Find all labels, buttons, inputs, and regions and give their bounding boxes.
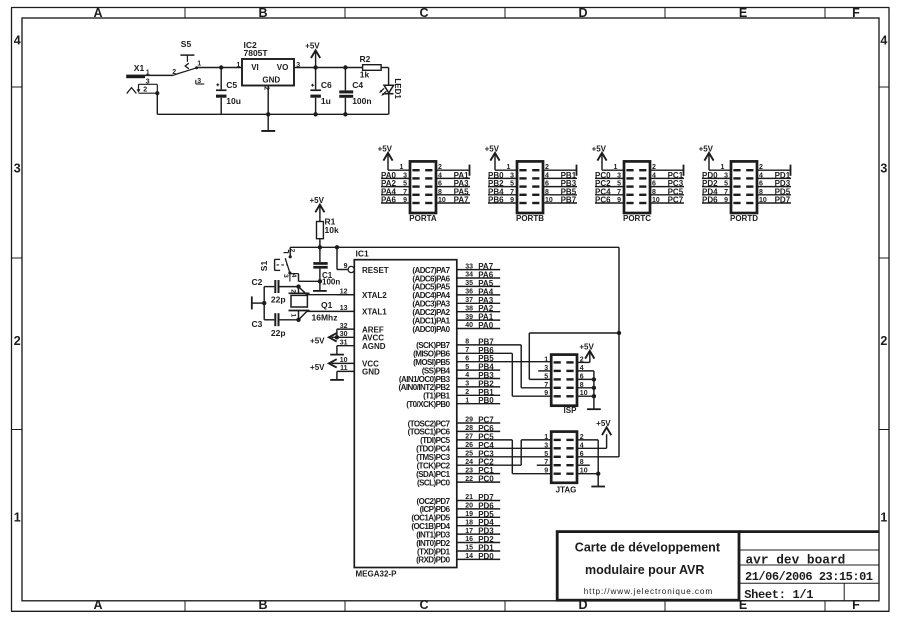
svg-text:6: 6 [438,181,442,188]
svg-text:PC0: PC0 [478,475,494,484]
svg-text:GND: GND [362,368,380,377]
svg-text:1: 1 [720,164,724,171]
svg-text:XTAL1: XTAL1 [362,308,387,317]
svg-text:27: 27 [465,434,473,441]
svg-text:38: 38 [465,305,473,312]
svg-text:4: 4 [652,172,656,179]
svg-text:R2: R2 [360,54,371,64]
svg-text:C: C [419,6,428,20]
svg-text:37: 37 [465,297,473,304]
svg-text:7805T: 7805T [244,48,269,58]
svg-text:C4: C4 [352,80,363,90]
svg-text:C2: C2 [252,277,263,287]
svg-text:PB0: PB0 [478,396,494,405]
svg-text:10: 10 [438,197,446,204]
svg-text:14: 14 [465,553,473,560]
svg-text:16: 16 [465,536,473,543]
svg-text:+5V: +5V [310,363,325,372]
svg-text:24: 24 [465,459,473,466]
svg-text:C3: C3 [252,319,263,329]
svg-text:18: 18 [465,519,473,526]
svg-text:PB6: PB6 [488,196,504,205]
svg-text:7: 7 [403,189,407,196]
svg-text:13: 13 [340,305,348,312]
svg-text:4: 4 [759,172,763,179]
svg-text:5: 5 [403,181,407,188]
svg-text:4: 4 [438,172,442,179]
svg-text:3: 3 [880,162,887,176]
svg-text:39: 39 [465,314,473,321]
svg-text:7: 7 [465,347,469,354]
svg-text:Q1: Q1 [321,300,333,310]
svg-text:2: 2 [545,164,549,171]
svg-text:B: B [258,598,267,612]
svg-text:avr_dev_board: avr_dev_board [746,553,846,568]
svg-text:6: 6 [759,181,763,188]
svg-text:25: 25 [465,451,473,458]
svg-text:2: 2 [289,289,296,293]
svg-text:34: 34 [465,272,473,279]
svg-text:1: 1 [236,62,240,69]
svg-text:PB7: PB7 [561,196,577,205]
svg-text:5: 5 [617,181,621,188]
svg-text:6: 6 [545,181,549,188]
svg-text:JTAG: JTAG [556,485,577,494]
svg-text:+5V: +5V [485,144,500,153]
svg-text:ISP: ISP [564,406,578,415]
svg-text:PC7: PC7 [668,196,684,205]
svg-text:Sheet: 1/1: Sheet: 1/1 [744,588,813,602]
svg-text:6: 6 [465,355,469,362]
svg-text:17: 17 [465,528,473,535]
svg-text:A: A [93,6,102,20]
svg-text:26: 26 [465,442,473,449]
svg-text:1: 1 [289,314,296,318]
svg-text:22p: 22p [271,328,286,338]
svg-text:10u: 10u [226,96,241,106]
svg-text:9: 9 [724,197,728,204]
svg-text:5: 5 [724,181,728,188]
svg-text:4: 4 [465,372,469,379]
svg-text:1: 1 [880,511,887,525]
svg-text:+5V: +5V [699,144,714,153]
svg-text:+5V: +5V [305,42,320,51]
svg-text:7: 7 [724,189,728,196]
svg-text:MEGA32-P: MEGA32-P [356,570,398,579]
svg-text:2: 2 [759,164,763,171]
svg-text:2: 2 [465,389,469,396]
svg-text:28: 28 [465,425,473,432]
svg-text:29: 29 [465,417,473,424]
svg-text:PD7: PD7 [775,196,791,205]
svg-text:8: 8 [438,189,442,196]
svg-text:1: 1 [613,164,617,171]
svg-text:B: B [258,6,267,20]
svg-text:PD6: PD6 [702,196,718,205]
svg-text:1u: 1u [321,96,331,106]
svg-text:4: 4 [545,172,549,179]
svg-text:21/06/2006 23:15:01: 21/06/2006 23:15:01 [745,570,873,584]
svg-text:C5: C5 [226,80,237,90]
svg-text:23: 23 [465,467,473,474]
svg-text:10: 10 [545,197,553,204]
svg-text:VO: VO [277,63,289,72]
svg-text:33: 33 [465,263,473,270]
svg-text:1: 1 [465,397,469,404]
svg-text:D: D [578,6,587,20]
svg-text:4: 4 [880,33,887,47]
svg-text:3: 3 [14,162,21,176]
svg-text:8: 8 [759,189,763,196]
svg-text:+5V: +5V [310,337,325,346]
svg-text:9: 9 [344,263,348,270]
svg-text:5: 5 [465,364,469,371]
svg-text:21: 21 [465,494,473,501]
svg-text:(ADC0)PA0: (ADC0)PA0 [412,325,450,334]
svg-text:XTAL2: XTAL2 [362,291,387,300]
svg-text:7: 7 [617,189,621,196]
svg-text:3: 3 [465,381,469,388]
svg-text:IC1: IC1 [356,248,370,258]
svg-text:1: 1 [197,61,201,68]
svg-text:(RXD)PD0: (RXD)PD0 [416,556,450,565]
svg-text:15: 15 [465,545,473,552]
svg-text:GND: GND [262,75,280,84]
svg-text:E: E [739,6,747,20]
svg-text:100n: 100n [352,96,371,106]
svg-text:22: 22 [465,476,473,483]
svg-text:40: 40 [465,322,473,329]
svg-text:9: 9 [510,197,514,204]
svg-text:4: 4 [290,274,297,278]
svg-text:16Mhz: 16Mhz [312,313,338,323]
svg-text:+5V: +5V [378,144,393,153]
svg-text:9: 9 [617,197,621,204]
svg-text:10: 10 [652,197,660,204]
svg-text:Carte de développement: Carte de développement [575,541,721,555]
svg-text:PA7: PA7 [454,196,470,205]
svg-text:1k: 1k [360,69,370,79]
svg-text:1: 1 [506,164,510,171]
svg-text:5: 5 [510,181,514,188]
svg-text:2: 2 [143,86,147,93]
svg-text:19: 19 [465,511,473,518]
svg-text:+5V: +5V [579,342,594,351]
svg-text:3: 3 [282,274,289,278]
svg-text:PORTA: PORTA [409,214,437,223]
svg-text:C: C [419,598,428,612]
svg-text:22p: 22p [271,295,286,305]
svg-text:+5V: +5V [309,196,324,205]
svg-text:9: 9 [403,197,407,204]
svg-text:1: 1 [544,356,548,363]
svg-text:5: 5 [544,451,548,458]
svg-text:+5V: +5V [596,419,611,428]
svg-text:AGND: AGND [362,342,386,351]
svg-text:PA6: PA6 [381,196,397,205]
svg-text:3: 3 [544,442,548,449]
svg-text:(T0/XCK)PB0: (T0/XCK)PB0 [406,400,450,409]
svg-text:LED1: LED1 [393,78,402,99]
svg-text:(SCL)PC0: (SCL)PC0 [417,478,451,487]
svg-text:F: F [852,6,860,20]
svg-text:2: 2 [880,334,887,348]
svg-text:6: 6 [652,181,656,188]
svg-text:8: 8 [465,339,469,346]
svg-text:1: 1 [399,164,403,171]
svg-text:PORTC: PORTC [623,214,651,223]
svg-text:VI: VI [251,63,259,72]
svg-text:PA0: PA0 [478,321,494,330]
svg-text:1: 1 [14,511,21,525]
svg-text:20: 20 [465,503,473,510]
svg-text:PD0: PD0 [478,552,494,561]
svg-text:2: 2 [14,334,21,348]
svg-text:35: 35 [465,280,473,287]
svg-text:3: 3 [724,172,728,179]
svg-text:8: 8 [545,189,549,196]
svg-text:F: F [852,598,860,612]
svg-text:+5V: +5V [592,144,607,153]
svg-text:S5: S5 [181,39,192,49]
svg-text:RESET: RESET [362,266,389,275]
svg-text:S1: S1 [259,261,269,272]
svg-text:3: 3 [617,172,621,179]
svg-text:4: 4 [14,33,21,47]
svg-text:X1: X1 [134,63,145,73]
svg-text:http://www.jelectronique.com: http://www.jelectronique.com [584,587,713,596]
svg-text:2: 2 [652,164,656,171]
svg-text:PC6: PC6 [595,196,611,205]
svg-text:2: 2 [289,249,296,253]
svg-text:3: 3 [510,172,514,179]
svg-text:PORTB: PORTB [516,214,544,223]
svg-text:3: 3 [403,172,407,179]
svg-text:2: 2 [438,164,442,171]
svg-text:10k: 10k [325,225,339,235]
svg-text:modulaire pour AVR: modulaire pour AVR [585,563,704,577]
svg-text:C6: C6 [321,80,332,90]
svg-text:8: 8 [652,189,656,196]
svg-text:A: A [93,598,102,612]
svg-text:7: 7 [510,189,514,196]
svg-text:36: 36 [465,289,473,296]
svg-text:10: 10 [759,197,767,204]
svg-text:PORTD: PORTD [730,214,758,223]
svg-text:100n: 100n [322,277,340,286]
